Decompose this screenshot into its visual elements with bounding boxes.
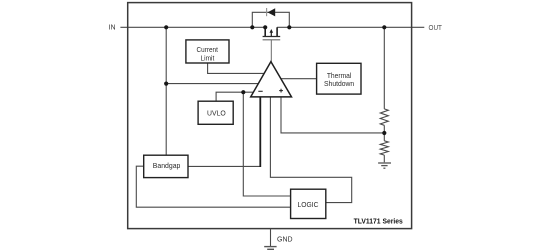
op-amp U1 non-inverting label <box>279 89 283 93</box>
op-amp U1 error amplifier <box>251 62 292 97</box>
svg-text:TLV1171 Series: TLV1171 Series <box>354 217 403 226</box>
block Thermal Shutdown <box>317 63 361 94</box>
svg-text:Shutdown: Shutdown <box>324 79 354 88</box>
diode D1 body diode cathode bar <box>266 8 268 16</box>
transistor Q1 body arrow <box>270 31 272 36</box>
ground under R2 <box>378 162 391 164</box>
svg-text:Limit: Limit <box>201 53 215 62</box>
block Bandgap <box>144 155 188 177</box>
svg-text:LOGIC: LOGIC <box>298 200 319 209</box>
wire GND stem <box>270 229 272 247</box>
wire feedback from divider to non-inverting input <box>281 97 384 133</box>
wire gate stem from pass FET to error amp apex <box>270 40 272 63</box>
svg-text:UVLO: UVLO <box>207 109 226 118</box>
wire IN lead and left rail <box>120 26 265 28</box>
wire error amp output to Thermal Shutdown <box>279 78 317 80</box>
transistor Q1 pass FET right terminal <box>276 27 278 36</box>
diode D1 body diode <box>268 8 276 16</box>
wire between resistors <box>383 125 385 141</box>
svg-text:Bandgap: Bandgap <box>153 161 181 170</box>
wire Bandgap output to inverting input riser <box>188 165 260 167</box>
ground GND symbol <box>264 246 276 248</box>
node junction dots <box>164 25 168 29</box>
wire branch from input rail to error amp supply <box>166 83 262 85</box>
wire error amp enable loop to LOGIC right <box>270 97 351 203</box>
wire R2 to ground <box>383 155 385 162</box>
svg-text:IN: IN <box>109 23 116 32</box>
block Current Limit <box>186 40 229 63</box>
block UVLO <box>198 101 233 124</box>
op-amp U1 inverting label <box>258 90 262 92</box>
resistor R1 <box>380 109 388 125</box>
wire node A down to LOGIC left input <box>243 92 290 196</box>
wire OUT rail down to resistor divider <box>383 27 385 109</box>
outer IC boundary <box>128 3 412 229</box>
transistor Q1 channel plate <box>263 36 281 38</box>
svg-text:GND: GND <box>277 235 293 244</box>
wire input-rail vertical branch to Bandgap <box>165 27 167 155</box>
transistor Q1 pass FET left terminal <box>264 27 266 36</box>
wire inverting input riser (thick) <box>259 97 261 168</box>
block LOGIC <box>291 189 326 218</box>
wire UVLO to node A <box>216 92 257 101</box>
wire body-diode loop <box>252 12 289 27</box>
wire right rail to OUT <box>277 26 424 28</box>
wire Bandgap left loop to LOGIC <box>136 166 290 207</box>
transistor Q1 gate plate <box>263 39 281 41</box>
svg-text:OUT: OUT <box>429 23 443 32</box>
wire Current Limit to error amp <box>208 63 267 74</box>
resistor R2 <box>380 141 388 155</box>
